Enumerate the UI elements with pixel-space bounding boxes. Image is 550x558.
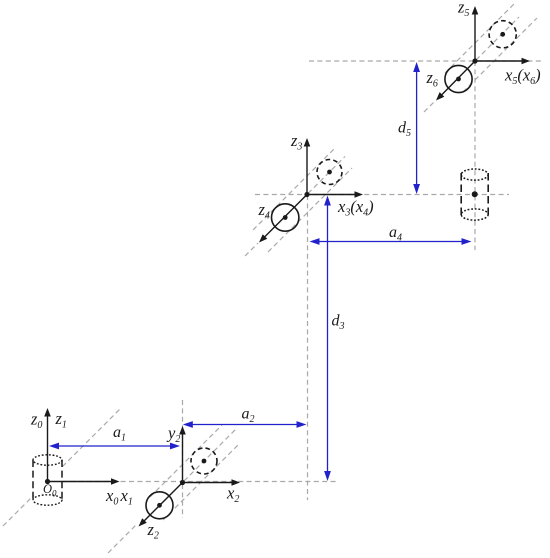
x3 x4 axis [307,191,363,198]
frame-3 link axis extension [308,157,345,194]
frame-5 link band lower edge [463,18,537,92]
vertical through frame-5 origin and cylinder [474,61,476,250]
z6 axis [436,61,475,101]
frame-5 link axis extension [476,17,519,60]
dimension a2 [183,421,307,428]
joint-3 solid circle [272,204,299,231]
dimension a4 [310,238,472,245]
dimension d5 [413,62,420,194]
frame-2 link axis lower extension [108,524,137,553]
joint-6 dashed circle [489,21,516,48]
baseline through frame-3 origin and wrist cylinder [255,194,509,196]
frame-3 link axis lower extension [245,243,258,256]
svg-text:x5(x6): x5(x6) [504,66,541,88]
baseline through O0 and frame-2 origin [45,481,337,483]
z3 axis [304,138,311,195]
joint-4 dashed circle [317,160,342,185]
joint-2 dashed circle [191,448,217,474]
z4 axis [259,195,307,243]
joint-2 solid circle [146,492,173,519]
frame-3 link band lower edge [268,168,352,252]
joint-5 solid circle [445,65,472,92]
frame-2 origin dot [180,480,185,485]
svg-text:x3(x4): x3(x4) [337,197,374,219]
x2 axis [183,479,241,486]
z5 axis [472,6,479,61]
x5 x6 axis [475,58,530,65]
wrist dashed cylinder [461,169,488,220]
baseline through frame-5 origin [309,60,543,62]
frame-3 link band upper edge [253,147,336,230]
frame-2 link axis extension [184,428,237,481]
frame-2 link band lower edge [163,443,240,520]
base cylinder joint 1 [33,455,62,505]
frame-2 link band upper edge [150,425,222,497]
dimension d3 [324,196,331,482]
y2 axis [179,426,186,483]
z0 z1 axis [44,408,51,482]
vertical through frame-2 origin [182,400,184,518]
vertical through frame-3 origin [307,195,309,500]
dimension a1 [49,443,180,450]
z2 axis [139,483,183,527]
frame-3 origin dot [304,192,309,197]
frame-5 origin dot [472,58,477,63]
frame-5 link band upper edge [445,2,516,73]
x0 x1 axis [48,478,120,485]
origin O0 dot [45,479,50,484]
frame-5 link axis lower extension [424,101,435,112]
diagonal through O0 [3,408,121,526]
